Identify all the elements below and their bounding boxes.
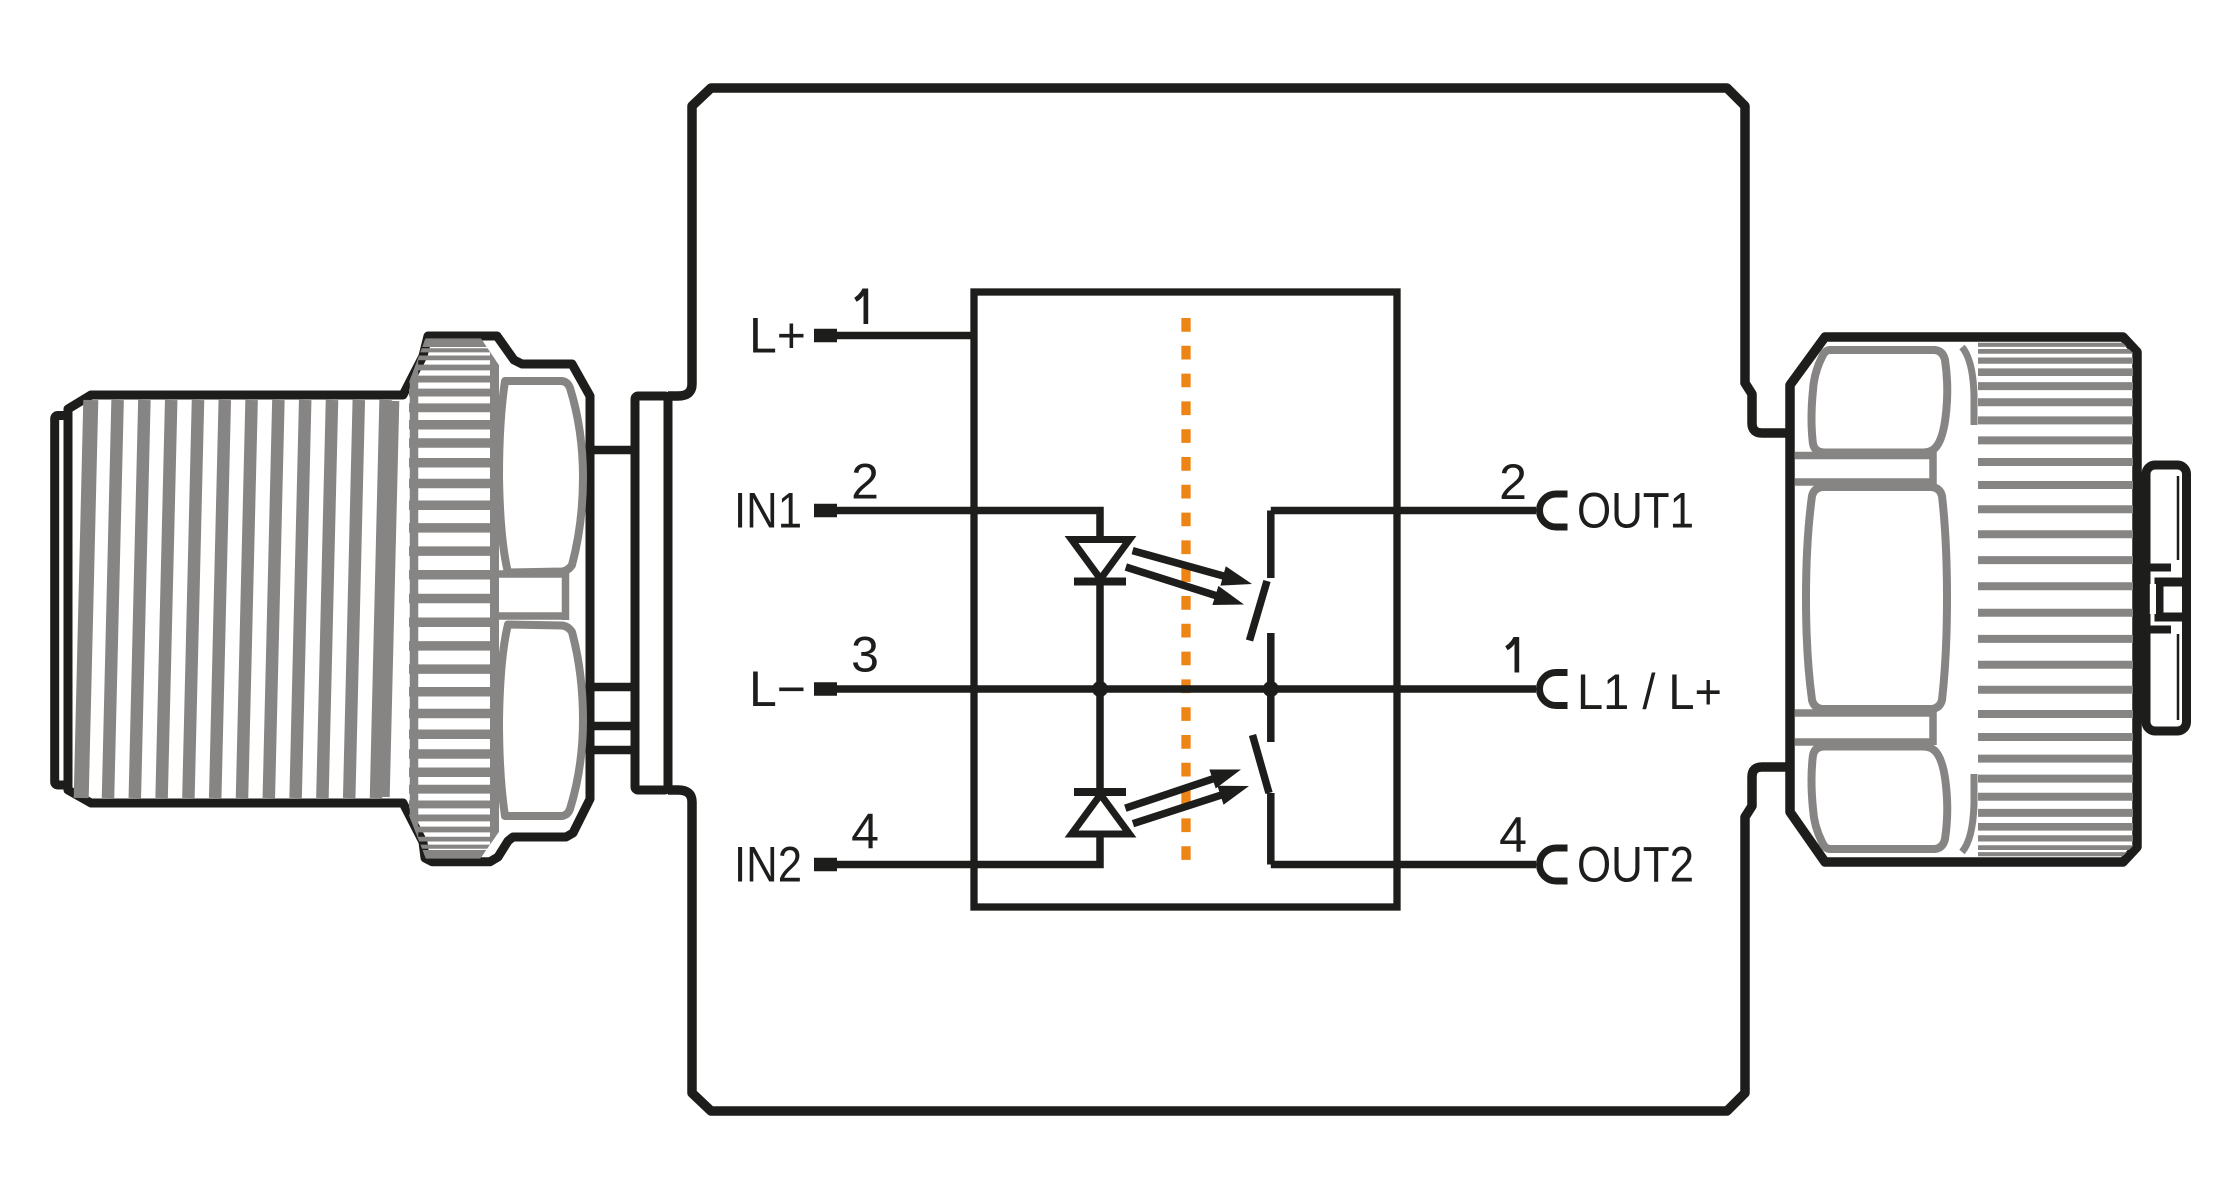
- right connector knurl stripes: [1978, 345, 2133, 854]
- svg-text:L−: L−: [749, 661, 806, 717]
- right connector hex waist lines upper: [1795, 452, 1930, 460]
- pin number 1 (L1/L+): [1505, 637, 1519, 673]
- LED D2 wire: [1096, 689, 1104, 798]
- bracket inner ridge lines: [2177, 476, 2180, 560]
- wire OUT1: [1271, 507, 1536, 515]
- terminal square L+: [814, 329, 837, 343]
- left connector knurl stripes: [409, 341, 499, 858]
- optocoupler arrows D1->S1: [1123, 541, 1255, 614]
- svg-text:2: 2: [851, 454, 879, 510]
- svg-text:2: 2: [1499, 454, 1527, 510]
- LED D1 wire: [1096, 575, 1104, 689]
- wire OUT2: [1271, 861, 1536, 869]
- bracket cross bars: [2142, 564, 2172, 572]
- junction dot right: [1263, 681, 1279, 697]
- left connector hex facet top lens: [499, 381, 583, 573]
- wire IN1 pin2: [837, 511, 1100, 543]
- schematic box U1: [974, 292, 1397, 907]
- svg-text:3: 3: [851, 627, 879, 683]
- right connector body outline: [1790, 337, 2137, 862]
- svg-text:L+: L+: [749, 308, 806, 364]
- right connector narrow facet curves: [1962, 347, 1974, 425]
- left connector threads: [81, 400, 395, 798]
- switch S1: [1267, 511, 1275, 579]
- left connector hex waist lines: [496, 570, 564, 578]
- LED D1 (triangle down + cathode bar): [1072, 540, 1130, 580]
- right connector hex facet top lens: [1812, 350, 1948, 453]
- left connector neck bar lower: [589, 722, 637, 731]
- left connector neck bar mid: [589, 683, 637, 692]
- svg-text:IN2: IN2: [734, 837, 802, 893]
- wire L- pin3 (through to L1/L+): [837, 685, 1536, 693]
- left connector hex facet bottom lens: [499, 625, 583, 817]
- right connector hex waist lines lower: [1795, 709, 1930, 717]
- svg-text:IN1: IN1: [734, 483, 802, 539]
- svg-text:4: 4: [851, 804, 879, 860]
- left connector neck bar top: [589, 446, 637, 455]
- isolation barrier (orange dashed): [1181, 318, 1190, 860]
- optocoupler arrows D2->S2: [1122, 760, 1252, 833]
- svg-text:OUT2: OUT2: [1577, 837, 1694, 893]
- right connector keying tab: [2159, 582, 2187, 617]
- svg-text:4: 4: [1499, 807, 1527, 863]
- right connector mounting bracket: [2146, 465, 2187, 731]
- svg-text:OUT1: OUT1: [1577, 483, 1694, 539]
- socket OUT1: [1540, 494, 1568, 527]
- left connector neck bar bottom: [589, 746, 637, 755]
- wire L+ pin1: [837, 332, 974, 340]
- right connector hex facet middle lens: [1806, 487, 1947, 709]
- module body outline (bottom half with right notch): [668, 767, 1793, 1111]
- left connector cable cap: [55, 416, 68, 786]
- module body outline (top half with right notch): [668, 88, 1793, 433]
- terminal square L-: [814, 682, 837, 696]
- left connector body outline: [68, 336, 590, 862]
- wire IN2 pin4: [837, 832, 1100, 865]
- svg-text:L1 / L+: L1 / L+: [1577, 664, 1722, 720]
- junction dot left: [1092, 681, 1108, 697]
- left connector flange plate: [635, 396, 668, 790]
- terminal square IN1: [814, 504, 837, 518]
- socket L1/L+: [1540, 673, 1568, 706]
- pin number 1 (L+): [854, 289, 868, 325]
- switch S2: [1267, 689, 1275, 742]
- socket OUT2: [1540, 848, 1568, 881]
- LED D2 (triangle up + bar): [1072, 795, 1130, 835]
- terminal square IN2: [814, 858, 837, 872]
- right connector hex facet bottom lens: [1812, 747, 1948, 850]
